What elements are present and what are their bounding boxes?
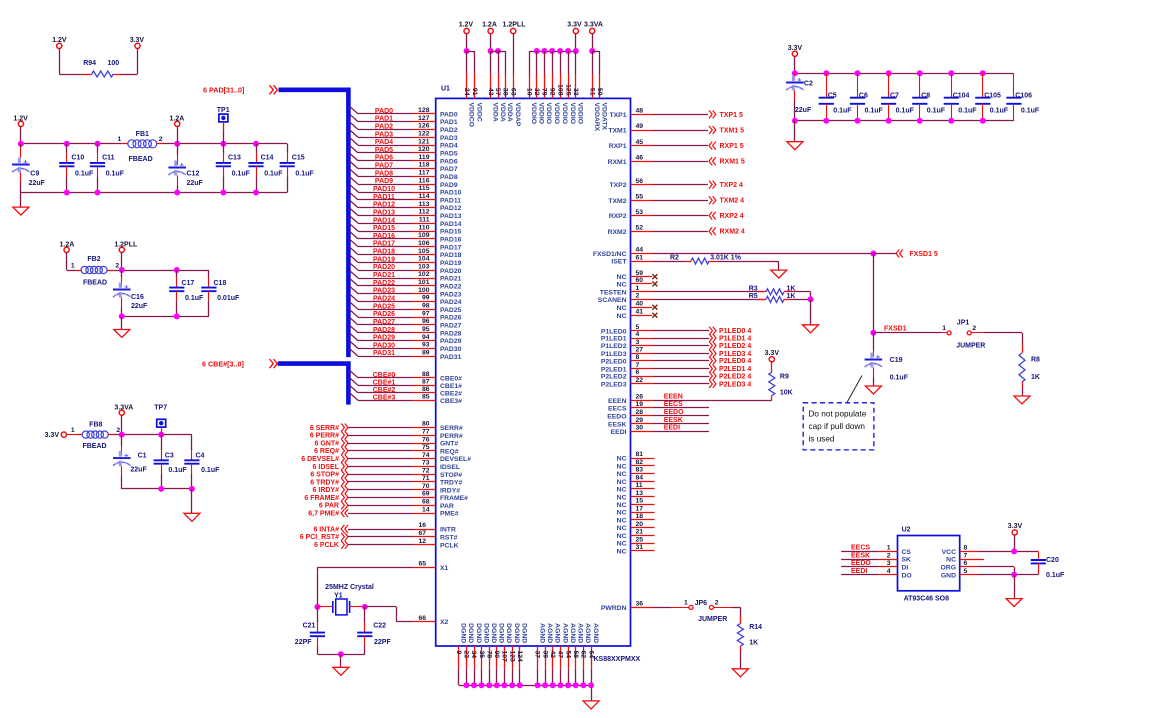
svg-text:120: 120 [418, 146, 430, 153]
wire [791, 291, 811, 293]
pin 89 stub [412, 356, 436, 358]
svg-text:TXM1: TXM1 [608, 128, 626, 135]
svg-text:PAD27: PAD27 [373, 319, 395, 326]
svg-text:TP1: TP1 [217, 107, 230, 114]
svg-text:C104: C104 [953, 92, 970, 99]
svg-text:111: 111 [419, 217, 430, 224]
pin 60 stub [631, 283, 652, 285]
ferrite bead FB1 [118, 131, 163, 163]
pin 96 stub [412, 324, 436, 326]
wire bus entry PAD31 [350, 349, 358, 356]
no-connect X [652, 305, 657, 310]
pin 95 stub [412, 332, 436, 334]
svg-text:PAD24: PAD24 [373, 296, 395, 303]
svg-text:C19: C19 [890, 357, 903, 364]
wire net PCLK [348, 544, 414, 546]
svg-text:76: 76 [422, 436, 430, 443]
capacitor C21 [295, 607, 325, 654]
junction [573, 48, 579, 54]
svg-text:50: 50 [596, 88, 603, 96]
svg-text:PAD13: PAD13 [373, 210, 395, 217]
svg-text:106: 106 [418, 240, 430, 247]
svg-text:82: 82 [636, 459, 644, 466]
svg-text:X1: X1 [440, 565, 449, 572]
svg-text:AGND: AGND [592, 623, 599, 643]
wire net PAD4 [358, 145, 412, 147]
svg-text:Y1: Y1 [334, 592, 343, 599]
off-page connector GNT# [341, 439, 348, 447]
svg-text:PAD18: PAD18 [373, 249, 395, 256]
pin 54 stub [568, 646, 570, 669]
svg-text:PAD31: PAD31 [440, 354, 462, 361]
junction [95, 141, 101, 147]
svg-text:60: 60 [636, 277, 644, 284]
svg-text:15: 15 [636, 498, 644, 505]
pin 49 stub [631, 130, 654, 132]
wire net PAD7 [358, 168, 412, 170]
svg-text:3.3VA: 3.3VA [584, 22, 603, 29]
capacitor C11 [90, 144, 125, 193]
svg-text:89: 89 [422, 349, 430, 356]
off-page connector TXM2 [709, 196, 716, 204]
power 1.2A [60, 242, 75, 253]
pin 123 stub [512, 646, 514, 669]
svg-text:PAD1: PAD1 [375, 116, 393, 123]
svg-text:41: 41 [636, 308, 644, 315]
svg-text:C7: C7 [890, 92, 899, 99]
pin 7 stub [631, 368, 654, 370]
svg-text:PAD25: PAD25 [440, 307, 462, 314]
svg-text:RXM2: RXM2 [608, 229, 627, 236]
svg-text:DGND: DGND [513, 623, 520, 643]
svg-text:NC: NC [617, 305, 627, 312]
svg-text:PAD5: PAD5 [375, 147, 393, 154]
svg-text:FBEAD: FBEAD [129, 156, 153, 163]
wire [1014, 535, 1016, 552]
off-page connector RXP2 [709, 212, 716, 220]
wire [873, 253, 896, 255]
svg-text:PAD30: PAD30 [440, 346, 462, 353]
svg-text:33: 33 [572, 88, 579, 96]
wire [223, 122, 225, 130]
pin 37 stub [537, 646, 539, 669]
wire bus entry PAD7 [350, 161, 358, 168]
svg-text:NC: NC [617, 456, 627, 463]
wire net PAD31 [358, 356, 412, 358]
junction [565, 48, 571, 54]
svg-text:2: 2 [887, 552, 891, 559]
wire [121, 415, 123, 435]
wire bus entry PAD3 [350, 130, 358, 137]
pin 93 stub [412, 348, 436, 350]
ground [865, 386, 881, 394]
svg-text:STOP#: STOP# [440, 472, 462, 479]
svg-text:C22: C22 [373, 623, 386, 630]
junction [549, 48, 555, 54]
off-page connector REQ# [341, 447, 348, 455]
pin 46 stub [631, 161, 654, 163]
svg-text:PAD26: PAD26 [373, 311, 395, 318]
svg-text:58: 58 [572, 651, 579, 659]
pin 8 stub [960, 551, 978, 553]
off-page connector TRDY# [341, 478, 348, 486]
pin 102 stub [412, 278, 436, 280]
svg-text:6 FRAME#: 6 FRAME# [304, 495, 339, 502]
svg-text:NC: NC [617, 494, 627, 501]
power 1.2PLL [114, 242, 138, 253]
svg-text:RXM1 5: RXM1 5 [720, 159, 745, 166]
pin 27 stub [631, 353, 654, 355]
svg-text:PAD10: PAD10 [373, 186, 395, 193]
wire net TRDY# [348, 481, 412, 483]
wire [592, 51, 600, 53]
svg-text:INTR: INTR [440, 527, 456, 534]
svg-text:CS: CS [902, 549, 912, 556]
ground [1014, 396, 1030, 404]
junction [64, 190, 70, 196]
svg-text:PAD19: PAD19 [373, 256, 395, 263]
pin 74 stub [412, 458, 436, 460]
junction [917, 70, 923, 76]
pin 108 stub [560, 74, 562, 98]
pin 126 stub [412, 129, 436, 131]
pin 6 stub [631, 376, 654, 378]
wire net EEEN [654, 400, 772, 402]
svg-text:10: 10 [525, 88, 532, 96]
power 1.2V [13, 116, 28, 127]
wire net DEVSEL# [348, 458, 412, 460]
pin 111 stub [412, 223, 436, 225]
power 3.3VA [584, 22, 603, 34]
svg-text:14: 14 [422, 506, 430, 513]
wire [714, 607, 732, 609]
svg-text:57: 57 [494, 88, 501, 96]
junction [823, 70, 829, 76]
svg-text:1.2PLL: 1.2PLL [503, 22, 527, 29]
svg-text:C16: C16 [131, 294, 144, 301]
svg-text:IRDY#: IRDY# [440, 487, 460, 494]
svg-text:P1LED0: P1LED0 [601, 328, 627, 335]
svg-text:1K: 1K [749, 639, 758, 646]
IC U2 body [898, 536, 960, 591]
svg-text:EEDI: EEDI [851, 568, 867, 575]
junction [174, 313, 180, 319]
svg-text:59: 59 [636, 270, 644, 277]
wire net CBE#2 [358, 392, 412, 394]
svg-text:PAD8: PAD8 [440, 174, 458, 181]
svg-text:DGND: DGND [521, 623, 528, 643]
junction [471, 682, 477, 688]
svg-text:42: 42 [549, 651, 556, 659]
svg-text:P1LED3 4: P1LED3 4 [719, 351, 751, 358]
svg-text:PAD29: PAD29 [440, 338, 462, 345]
pin 51 stub [592, 74, 594, 98]
wire net PAD3 [358, 137, 412, 139]
off-page connector PAD bus [270, 85, 278, 94]
svg-text:77: 77 [422, 429, 430, 436]
svg-text:43: 43 [487, 88, 494, 96]
svg-text:JP6: JP6 [695, 600, 708, 607]
wire [654, 299, 764, 301]
svg-text:45: 45 [636, 139, 644, 146]
svg-text:118: 118 [419, 162, 430, 169]
pin 56 stub [631, 184, 654, 186]
wire net P1LED0 [654, 330, 710, 332]
svg-text:68: 68 [422, 499, 430, 506]
svg-text:62: 62 [580, 651, 587, 659]
svg-text:2: 2 [115, 262, 119, 269]
capacitor C13 [216, 144, 251, 193]
svg-text:PAD12: PAD12 [440, 205, 462, 212]
junction [253, 141, 259, 147]
svg-text:47: 47 [557, 651, 564, 659]
pin 78 stub [489, 646, 491, 669]
svg-text:6 SERR#: 6 SERR# [310, 425, 339, 432]
svg-text:49: 49 [636, 123, 644, 130]
wire bus entry PAD11 [350, 193, 358, 200]
junction [588, 682, 594, 688]
pin 71 stub [412, 481, 436, 483]
svg-text:32: 32 [533, 88, 540, 96]
svg-text:6 DEVSEL#: 6 DEVSEL# [301, 456, 339, 463]
svg-text:44: 44 [636, 247, 644, 254]
svg-text:22uF: 22uF [130, 466, 147, 473]
svg-text:23: 23 [463, 651, 470, 659]
pin 13 stub [631, 496, 655, 498]
svg-text:PAD21: PAD21 [440, 276, 462, 283]
svg-text:PAD6: PAD6 [375, 155, 393, 162]
svg-text:22uF: 22uF [29, 180, 46, 187]
svg-text:C5: C5 [828, 92, 837, 99]
wire net GNT# [348, 443, 412, 445]
svg-text:PAD8: PAD8 [375, 170, 393, 177]
wire net PAD12 [358, 207, 412, 209]
junction [565, 682, 571, 688]
svg-text:R9: R9 [780, 373, 789, 380]
pin 45 stub [631, 145, 654, 147]
svg-text:51: 51 [588, 88, 595, 96]
svg-text:P2LED0 4: P2LED0 4 [719, 358, 751, 365]
pin 31 stub [631, 550, 655, 552]
svg-text:AGND: AGND [554, 623, 561, 643]
ground [583, 701, 599, 709]
svg-text:FB8: FB8 [89, 422, 102, 429]
svg-text:EEEN: EEEN [664, 394, 683, 401]
pin 4 stub [631, 338, 654, 340]
svg-text:25: 25 [636, 536, 644, 543]
svg-text:cap if pull down: cap if pull down [809, 422, 866, 431]
svg-text:67: 67 [418, 530, 426, 537]
svg-text:EECS: EECS [608, 406, 627, 413]
svg-text:92: 92 [548, 88, 555, 96]
off-page connector P1LED1 [709, 334, 716, 342]
svg-text:PAR: PAR [440, 503, 454, 510]
svg-text:39: 39 [541, 651, 548, 659]
pin 5 stub [960, 574, 978, 576]
capacitor C12 [168, 144, 203, 193]
pin 68 stub [412, 505, 436, 507]
junction [550, 682, 556, 688]
svg-text:JUMPER: JUMPER [698, 616, 727, 623]
junction [314, 604, 320, 610]
capacitor C5 [819, 73, 853, 120]
svg-text:123: 123 [508, 651, 515, 663]
wire net FXSD1 [873, 254, 875, 333]
svg-text:101: 101 [418, 279, 430, 286]
wire [592, 51, 594, 74]
svg-text:P1LED3: P1LED3 [601, 351, 627, 358]
pin 47 stub [560, 646, 562, 669]
off-page connector IDSEL [341, 462, 348, 470]
svg-text:125: 125 [564, 84, 571, 96]
svg-text:114: 114 [419, 193, 430, 200]
wire net PAD20 [358, 270, 412, 272]
svg-text:RXP2: RXP2 [609, 213, 627, 220]
wire net TXM1 [654, 130, 708, 132]
wire net PAD1 [358, 121, 412, 123]
wire net IDSEL [348, 466, 412, 468]
off-page connector DEVSEL# [341, 455, 348, 463]
svg-text:PAD23: PAD23 [373, 288, 395, 295]
svg-text:6 INTA#: 6 INTA# [313, 526, 339, 533]
junction [174, 141, 180, 147]
wire net P1LED2 [654, 345, 710, 347]
svg-text:55: 55 [636, 193, 644, 200]
svg-text:0.1uF: 0.1uF [264, 171, 283, 178]
svg-text:1: 1 [887, 545, 891, 552]
svg-text:108: 108 [556, 84, 563, 96]
svg-text:75: 75 [422, 444, 430, 451]
svg-text:NC: NC [617, 510, 627, 517]
pin 26 stub [631, 400, 654, 402]
bus CBE#[3..0] [278, 364, 349, 405]
ground [803, 325, 819, 333]
svg-text:6: 6 [636, 369, 640, 376]
svg-text:16: 16 [418, 522, 426, 529]
pin 106 stub [412, 246, 436, 248]
svg-text:PAD20: PAD20 [440, 268, 462, 275]
svg-text:TXP2: TXP2 [610, 182, 627, 189]
capacitor C10 [59, 144, 94, 193]
svg-text:P1LED1 4: P1LED1 4 [719, 335, 751, 342]
pin 118 stub [412, 168, 436, 170]
svg-text:CBE#2: CBE#2 [373, 387, 396, 394]
svg-text:11: 11 [636, 482, 643, 489]
wire [529, 51, 576, 53]
svg-text:1: 1 [118, 136, 122, 143]
svg-text:NC: NC [617, 479, 627, 486]
pin 80 stub [412, 427, 436, 429]
junction [119, 313, 125, 319]
svg-text:9: 9 [455, 651, 462, 655]
pin 63 stub [513, 74, 515, 98]
svg-text:93: 93 [422, 342, 430, 349]
wire net TXP2 [654, 184, 708, 186]
svg-text:61: 61 [636, 254, 644, 261]
wire bus entry PAD0 [350, 107, 358, 114]
pin 120 stub [412, 152, 436, 154]
power 1.2V [459, 22, 474, 34]
off-page connector TXP2 [709, 181, 716, 189]
wire [317, 654, 364, 656]
svg-text:PAD1: PAD1 [440, 119, 458, 126]
svg-text:RXP2 4: RXP2 4 [720, 213, 744, 220]
IC U1 KS88XXPMXX body [436, 98, 631, 646]
pin 5 stub [631, 330, 654, 332]
ground [114, 330, 130, 338]
svg-text:1: 1 [636, 285, 640, 292]
pin 23 stub [466, 646, 468, 669]
svg-text:VCC: VCC [942, 549, 956, 556]
svg-text:EECS: EECS [851, 545, 870, 552]
junction [220, 141, 226, 147]
wire net PAD13 [358, 215, 412, 217]
svg-text:FRAME#: FRAME# [440, 495, 468, 502]
svg-text:85: 85 [422, 394, 430, 401]
svg-text:18: 18 [636, 513, 644, 520]
off-page connector RXP1 [709, 142, 716, 150]
junction [174, 267, 180, 273]
svg-text:EECS: EECS [664, 401, 683, 408]
svg-text:48: 48 [636, 108, 644, 115]
svg-text:EEDO: EEDO [851, 560, 871, 567]
svg-text:1: 1 [71, 262, 75, 269]
svg-text:RXM2 4: RXM2 4 [720, 229, 745, 236]
wire net PAD5 [358, 152, 412, 154]
wire net EEDI [654, 431, 710, 433]
pin 6 stub [960, 566, 978, 568]
svg-text:2: 2 [636, 293, 640, 300]
junction [886, 70, 892, 76]
svg-text:29: 29 [636, 417, 644, 424]
svg-text:R2: R2 [670, 255, 679, 262]
svg-text:0.1uF: 0.1uF [890, 375, 909, 382]
pin 121 stub [412, 145, 436, 147]
svg-text:C21: C21 [303, 623, 316, 630]
svg-text:EESK: EESK [851, 552, 870, 559]
junction [488, 48, 494, 54]
resistor R3 [749, 285, 796, 295]
wire net EEDO [841, 566, 879, 568]
wire [21, 192, 287, 194]
wire net PAD24 [358, 301, 412, 303]
off-page connector PAR [341, 501, 348, 509]
wire net EESK [841, 559, 879, 561]
wire net VCC [977, 551, 1038, 553]
pin 18 stub [631, 519, 655, 521]
pin 14 stub [412, 513, 436, 515]
svg-text:0.1uF: 0.1uF [1046, 572, 1065, 579]
svg-text:1: 1 [942, 325, 946, 332]
wire [66, 434, 75, 436]
svg-text:P2LED2: P2LED2 [601, 374, 627, 381]
pin 75 stub [412, 450, 436, 452]
wire bus entry PAD17 [350, 239, 358, 246]
wire net X2 [365, 606, 397, 608]
svg-text:PAD0: PAD0 [375, 108, 393, 115]
svg-text:C14: C14 [261, 155, 274, 162]
svg-text:JUMPER: JUMPER [956, 342, 985, 349]
svg-text:36: 36 [636, 601, 644, 608]
svg-text:PAD15: PAD15 [440, 229, 462, 236]
wire bus entry PAD16 [350, 232, 358, 239]
wire net P2LED1 [654, 368, 710, 370]
svg-text:GND: GND [941, 572, 956, 579]
svg-text:0.1uF: 0.1uF [201, 467, 220, 474]
pin 72 stub [412, 474, 436, 476]
pin 109 stub [412, 238, 436, 240]
wire [654, 261, 686, 263]
